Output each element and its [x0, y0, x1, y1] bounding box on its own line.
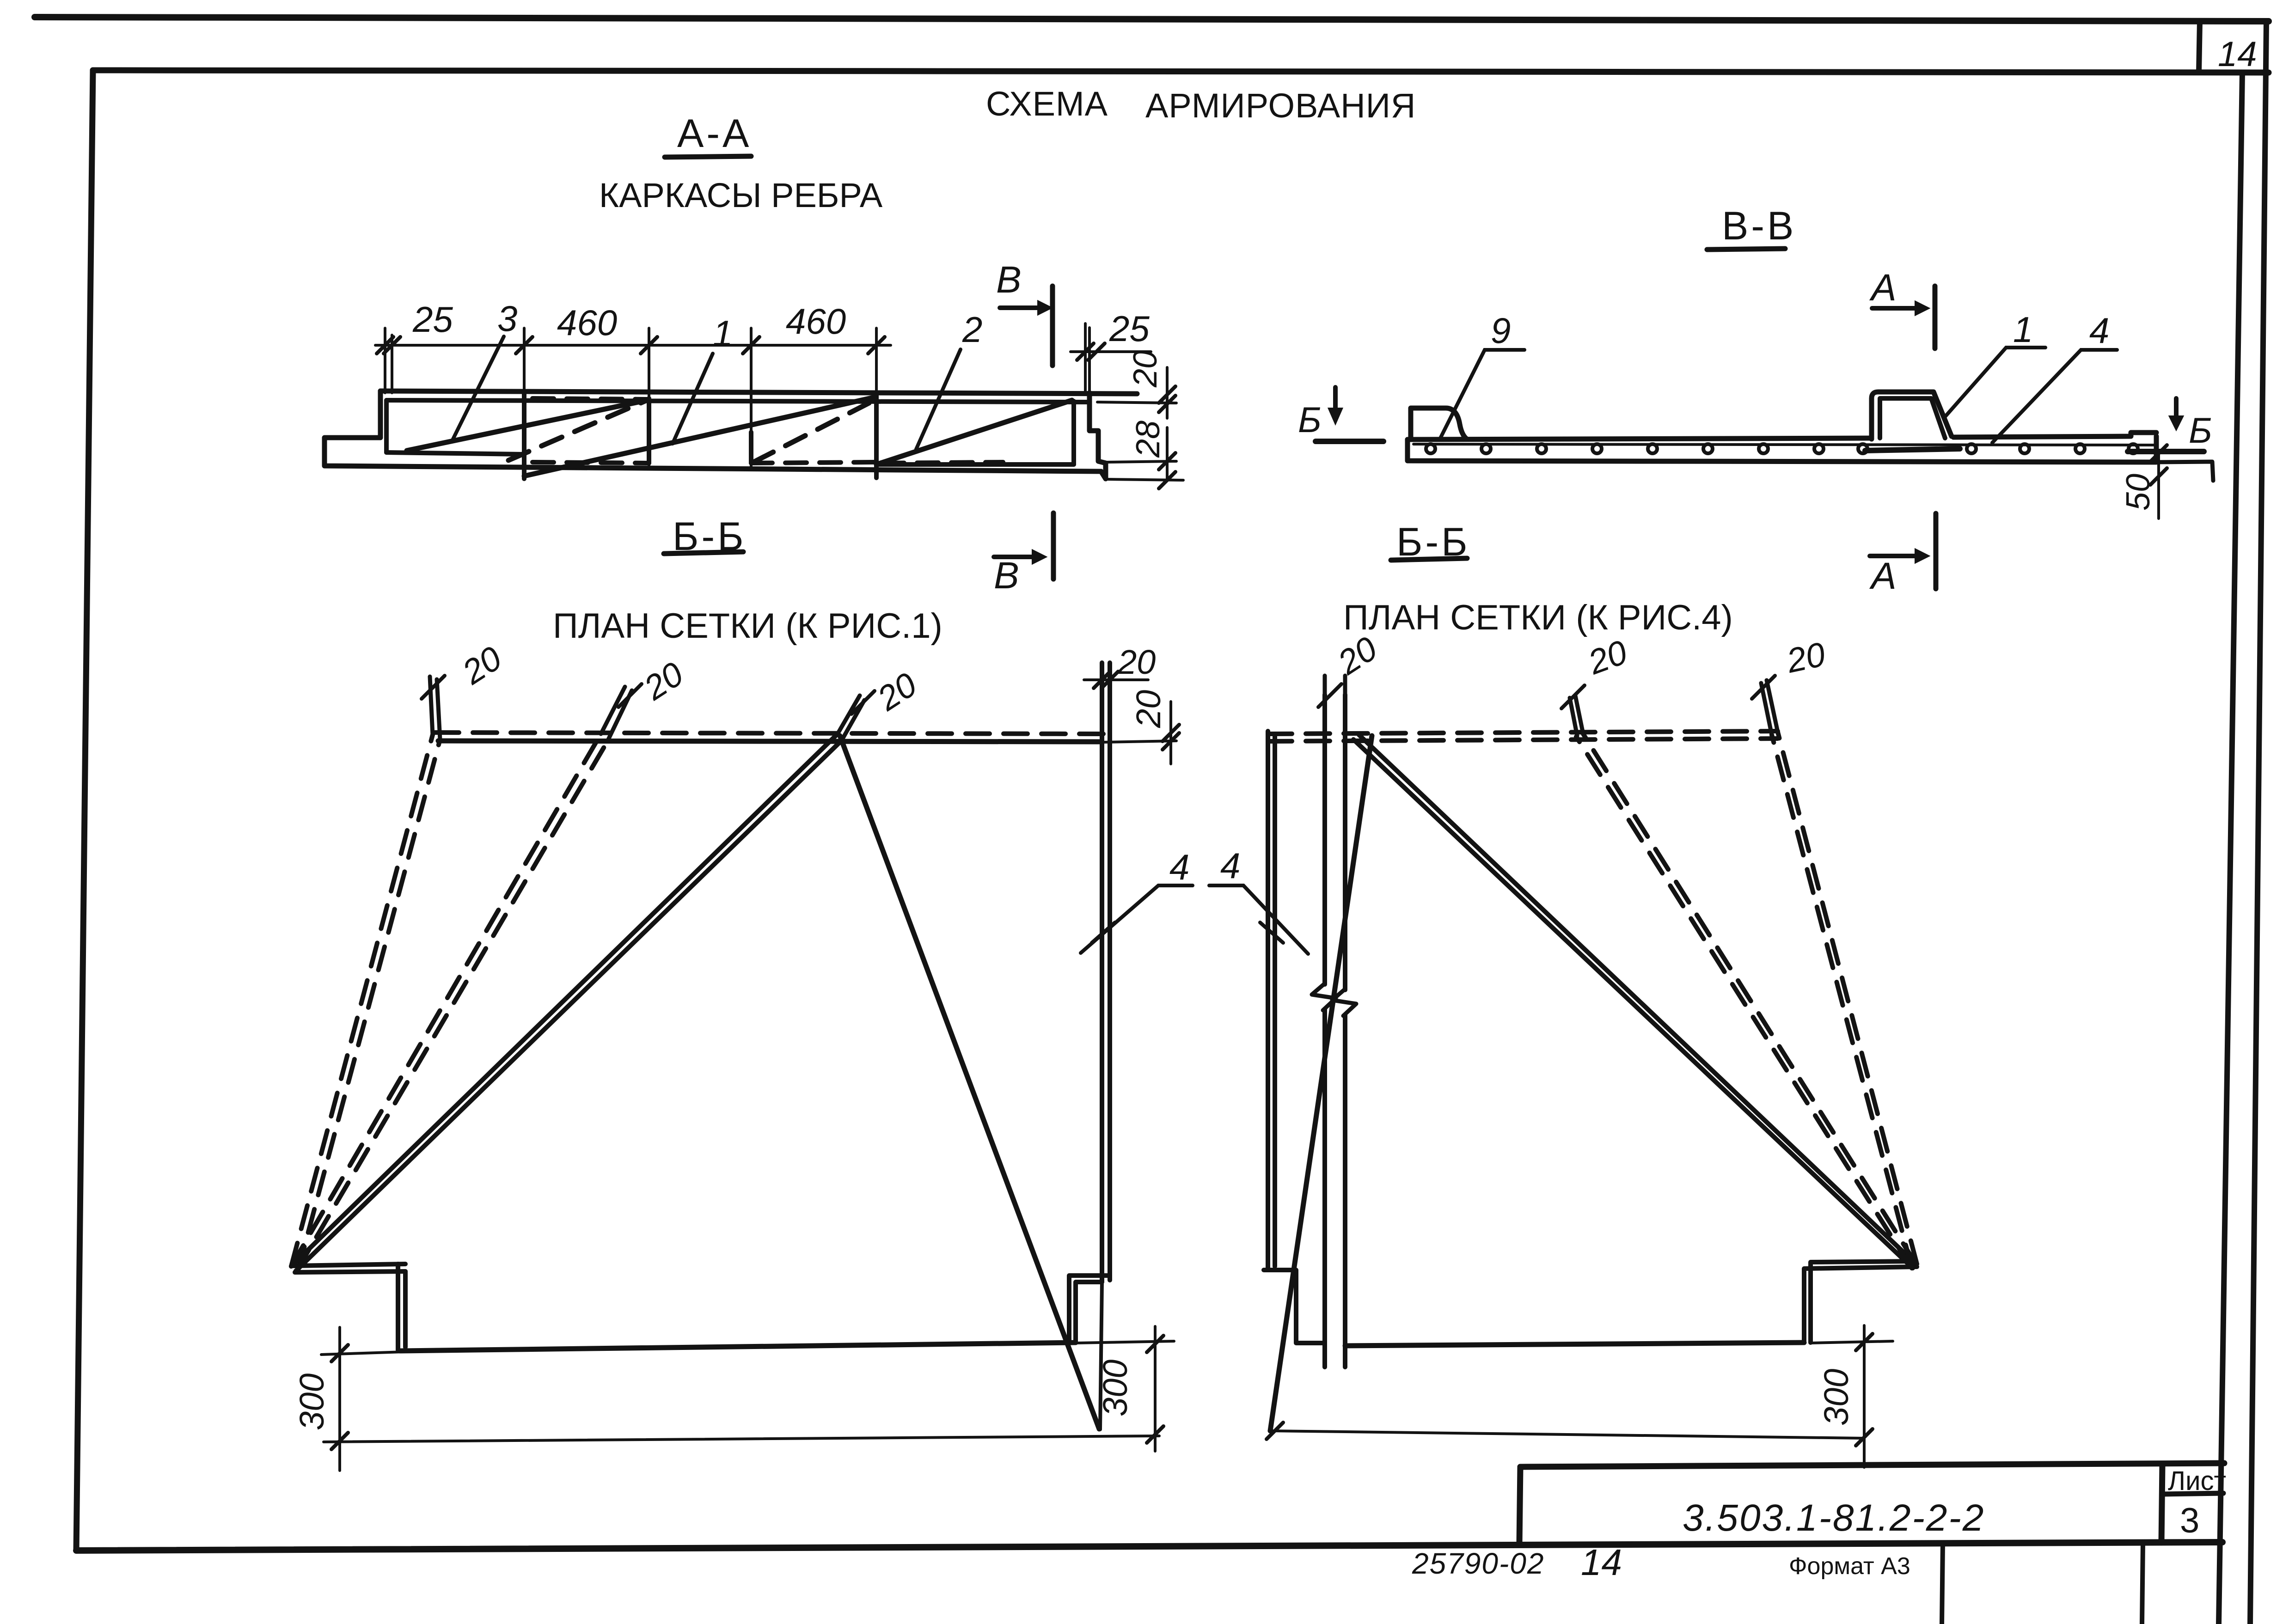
top outer border line — [35, 17, 2269, 21]
A-A dim extension x848 — [391, 335, 393, 393]
A-A tick 1134 — [516, 337, 532, 354]
right plan tick fan2 — [1561, 685, 1585, 708]
B-B dim 50 — [2157, 451, 2160, 519]
left plan tick fan1 — [422, 676, 445, 699]
A-A dashed diagonal 2 — [753, 403, 869, 462]
B-B mesh line in slab — [1414, 444, 2154, 445]
svg-text:3: 3 — [497, 298, 517, 339]
A-A vertical divider 2 — [874, 393, 879, 478]
left plan right edge line 1 — [1100, 663, 1104, 1282]
svg-text:4: 4 — [1220, 845, 1240, 886]
svg-text:28: 28 — [1130, 421, 1167, 458]
svg-text:Б: Б — [2189, 410, 2212, 451]
frame right inner line — [2219, 73, 2242, 1624]
leader left 4 — [1081, 885, 1193, 953]
svg-text:20: 20 — [1129, 690, 1168, 728]
right plan fan ext 2 — [1575, 696, 1583, 734]
right plan fan dashed corner b — [1772, 735, 1912, 1268]
left plan 300 dim right — [1076, 1326, 1174, 1451]
right plan 300 dim — [1270, 1325, 1893, 1467]
right plan bars ext — [1323, 676, 1327, 695]
left plan tick fan2 — [618, 684, 642, 707]
A-A dashed rect 2 bottom — [751, 462, 876, 463]
right plan fan dashed 2b — [1576, 737, 1911, 1267]
svg-text:9: 9 — [1491, 310, 1511, 351]
title block top line — [1520, 1463, 2224, 1467]
svg-text:300: 300 — [1096, 1360, 1134, 1416]
right plan top edge dashed 2 — [1268, 739, 1778, 741]
A-A beam inner top line — [386, 400, 1089, 402]
svg-text:25790-02: 25790-02 — [1412, 1547, 1544, 1580]
svg-text:Формат А3: Формат А3 — [1789, 1553, 1910, 1580]
frame bottom line — [76, 1542, 2222, 1551]
svg-text:25: 25 — [412, 299, 453, 340]
left plan fan dashed 1b — [298, 739, 440, 1270]
svg-text:А: А — [1869, 267, 1897, 309]
title block left line — [1519, 1467, 1520, 1544]
left plan fan dashed 2a — [291, 734, 601, 1266]
left plan top edge solid — [438, 741, 1102, 742]
A-A dashed rect 1 bottom — [532, 462, 649, 463]
A-A dim extension x2348 — [1084, 324, 1087, 392]
A-A dim extension x1404 — [648, 328, 650, 468]
A-A right vertical dim 20 — [1097, 367, 1176, 418]
left plan corner dim 20 vertical — [1102, 702, 1176, 764]
A-A dashed diagonal 1 — [508, 401, 645, 460]
svg-text:А: А — [1869, 555, 1897, 597]
svg-text:Лист: Лист — [2168, 1466, 2226, 1496]
B-B rib outer — [1872, 392, 1952, 439]
svg-text:300: 300 — [1817, 1369, 1855, 1426]
svg-text:300: 300 — [293, 1374, 331, 1430]
left plan fan dashed 1a — [291, 735, 433, 1266]
B-B rib inner — [1880, 398, 1945, 438]
frame left line — [76, 70, 93, 1551]
bottom strip vertical 1 — [1942, 1544, 1943, 1624]
A-A tick 2372 — [1088, 343, 1105, 360]
A-A dashed rect 1 right edge — [647, 398, 651, 463]
svg-text:1: 1 — [713, 313, 733, 354]
A-A diagonal frame 2 — [876, 400, 1072, 464]
right plan tick corner — [1752, 676, 1775, 699]
right plan fan dashed corner a — [1778, 732, 1917, 1264]
A-A tick 848 — [384, 337, 400, 354]
svg-text:3: 3 — [2180, 1501, 2199, 1540]
frame top line — [93, 70, 2269, 73]
svg-text:460: 460 — [557, 302, 617, 343]
A-A dim extension x1620 — [750, 328, 753, 469]
left plan bottom edge — [400, 1343, 1076, 1351]
texts — [986, 85, 1416, 125]
svg-text:20: 20 — [1127, 350, 1164, 388]
A-A top dimension line — [375, 344, 891, 347]
A-A solid rect right bottom — [876, 462, 1074, 467]
svg-text:Б: Б — [1298, 399, 1322, 440]
right plan left edge line 1 — [1266, 731, 1270, 1269]
svg-text:20: 20 — [1117, 643, 1156, 681]
A-A diagonal frame 1 — [524, 397, 874, 476]
right plan top edge dashed 1 — [1268, 731, 1778, 734]
right plan tick bars — [1318, 684, 1341, 707]
left plan right edge extension — [1100, 1282, 1102, 1429]
svg-text:2: 2 — [962, 309, 982, 350]
svg-text:4: 4 — [1169, 847, 1189, 887]
title block list-cell left line — [2161, 1465, 2162, 1543]
A-A dashed rect 2 left corner — [749, 432, 753, 463]
A-A tick 833 — [377, 337, 393, 354]
right plan fan ext corner — [1767, 680, 1778, 732]
right plan mesh bar 2 — [1343, 695, 1347, 1367]
right plan long diagonal — [1270, 736, 1372, 1431]
A-A right vertical dim 28 — [1106, 427, 1183, 481]
left plan right step — [1076, 1282, 1102, 1343]
A-A dim extension x2357 — [1088, 328, 1091, 391]
right plan fan solid b — [1353, 739, 1913, 1268]
svg-text:50: 50 — [2120, 474, 2157, 511]
A-A tick 1896 — [868, 337, 885, 354]
right plan bottom-left stub — [1264, 1270, 1323, 1343]
A-A dim extension x1134 — [523, 328, 526, 392]
svg-text:14: 14 — [2218, 35, 2257, 74]
A-A beam outer contour — [324, 391, 1101, 471]
tick on left plan edge — [1092, 922, 1115, 943]
A-A tick 1625 — [743, 337, 759, 354]
B-B mesh thick bar under rib — [1865, 449, 1960, 451]
leader right 4 — [1209, 885, 1308, 954]
right plan right step — [1804, 1267, 1917, 1343]
A-A dim extension x1896 — [875, 328, 878, 393]
right plan break symbol — [1312, 983, 1336, 1010]
svg-text:В: В — [996, 259, 1022, 301]
A-A tick 2348 — [1077, 343, 1094, 360]
left plan right edge line 2 — [1108, 663, 1112, 1280]
svg-text:ПЛАН СЕТКИ (К РИС.1): ПЛАН СЕТКИ (К РИС.1) — [553, 606, 942, 646]
svg-text:АРМИРОВАНИЯ: АРМИРОВАНИЯ — [1145, 86, 1416, 125]
left plan top edge dashed — [435, 733, 1105, 734]
bottom strip vertical 2 — [2142, 1543, 2143, 1624]
tick on right plan edge — [1260, 922, 1283, 943]
right plan left edge line 2 — [1273, 734, 1277, 1266]
B-B right extension line — [2156, 462, 2213, 481]
B-B left end block 9 — [1411, 408, 1466, 439]
svg-text:ПЛАН СЕТКИ (К РИС.4): ПЛАН СЕТКИ (К РИС.4) — [1343, 598, 1733, 637]
svg-text:20: 20 — [1783, 635, 1829, 680]
B-B slab top right part — [1953, 433, 2156, 437]
A-A diagonal frame 3 — [407, 400, 647, 451]
A-A solid rect right edge — [1071, 401, 1076, 464]
left plan fan ext 1 — [430, 677, 433, 735]
svg-text:В: В — [994, 555, 1019, 597]
right plan fan solid a — [1359, 735, 1916, 1264]
A-A inner rect 1 bottom — [386, 452, 524, 454]
title block list-cell divider — [2162, 1493, 2223, 1494]
svg-text:А-А: А-А — [677, 111, 752, 156]
left plan tick fan3 — [851, 691, 875, 714]
A-A right 25 dimension line — [1071, 350, 1151, 353]
svg-text:КАРКАСЫ РЕБРА: КАРКАСЫ РЕБРА — [599, 176, 883, 214]
right plan mesh bar 1 — [1322, 695, 1327, 1367]
svg-text:3.503.1-81.2-2-2: 3.503.1-81.2-2-2 — [1683, 1497, 1985, 1539]
svg-text:1: 1 — [2013, 309, 2033, 350]
right plan fan dashed 2a — [1583, 734, 1916, 1264]
A-A dim extension x833 — [384, 328, 386, 393]
A-A dashed bottom right segment — [883, 462, 1003, 463]
A-A beam top chord line — [380, 391, 1137, 394]
B-B slab top left part — [1408, 438, 1872, 440]
left plan fan ext 2 — [601, 687, 625, 734]
left plan fan solid 3b — [296, 740, 842, 1271]
left plan fan solid 3a — [291, 734, 838, 1266]
svg-text:В-В: В-В — [1722, 204, 1796, 248]
A-A vertical divider 1 — [522, 392, 526, 479]
A-A dashed rect 1 top — [532, 398, 649, 399]
svg-text:460: 460 — [786, 301, 846, 342]
page number box "14" — [2199, 21, 2200, 73]
right plan bottom edge — [1345, 1343, 1804, 1346]
svg-text:25: 25 — [1109, 308, 1150, 349]
svg-text:4: 4 — [2089, 310, 2109, 351]
A-A leader for 1 — [673, 354, 713, 444]
left plan vertex step vertical double — [396, 1264, 400, 1350]
left plan fan dashed 2b — [297, 740, 608, 1270]
frame right outer line — [2250, 21, 2266, 1624]
A-A inner rect 1 left edge — [384, 400, 389, 452]
A-A tick 1404 — [641, 337, 657, 354]
left plan long diagonal — [840, 736, 1099, 1429]
B-B slab outline — [1408, 436, 2156, 462]
svg-text:СХЕМА: СХЕМА — [986, 85, 1108, 123]
svg-text:14: 14 — [1581, 1542, 1622, 1583]
left plan corner dim 20 horizontal — [1084, 678, 1148, 681]
B-B rebar dots — [1426, 444, 2138, 453]
left plan fan ext 3 — [838, 696, 860, 734]
A-A leader for 2 — [916, 349, 961, 449]
left plan 300 dim left — [321, 1327, 1159, 1471]
A-A leader for 3 — [453, 336, 504, 439]
left plan vertex step top double — [292, 1264, 405, 1266]
